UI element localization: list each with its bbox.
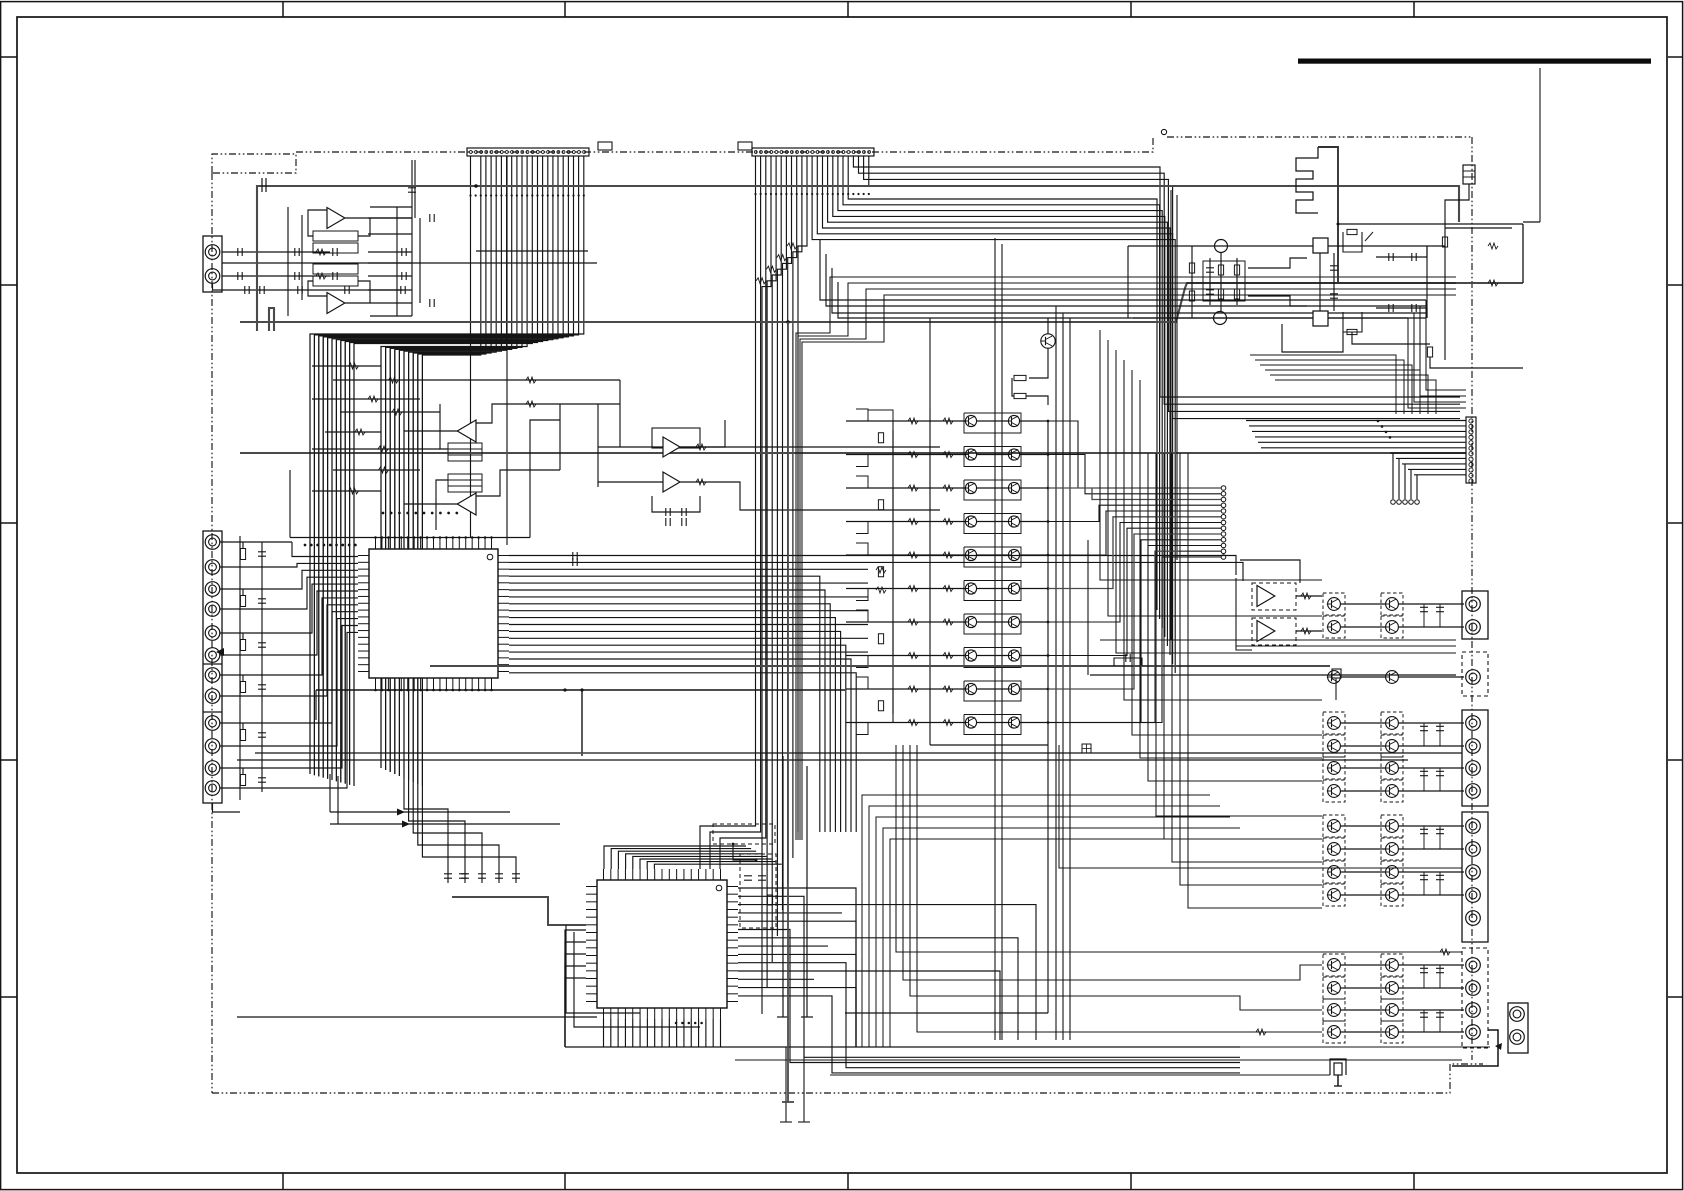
wire pair out [1398, 987, 1464, 989]
op-amp A3 [457, 420, 476, 442]
cluster dashed box L [1323, 999, 1345, 1021]
array bottom tie2 [845, 1012, 1048, 1014]
terminal circle [1221, 520, 1226, 525]
tie row mid-left [312, 448, 440, 450]
capacitor on in1 [238, 248, 242, 256]
junction dot CN2 [821, 193, 823, 195]
diode pair1b [1412, 253, 1416, 261]
wire row link [977, 621, 1009, 623]
junction dot CN2 [806, 193, 808, 195]
wire [261, 675, 263, 684]
wire [994, 238, 996, 1040]
wire U2 bottom pin [610, 1019, 612, 1047]
junction dot [1047, 587, 1050, 590]
junction dot [1047, 554, 1050, 557]
wire [869, 156, 1460, 419]
long wire under IC1 b [237, 759, 1408, 761]
component [1436, 1013, 1444, 1017]
junction dot row B [335, 544, 338, 547]
wire [354, 156, 532, 786]
wire Q0 down [1029, 348, 1048, 378]
wire U2 bottom pin [639, 1019, 641, 1047]
IC2 left vertical b [574, 932, 700, 1027]
junction dot [432, 689, 435, 692]
wire U1 bottom pin [413, 689, 415, 690]
resistor in1 [316, 249, 326, 255]
power right v2 [1444, 228, 1446, 360]
wire [772, 156, 781, 962]
junction dot [458, 689, 461, 692]
CN6 pin circle [1469, 473, 1473, 477]
junction dot [426, 536, 429, 539]
comb feed heavy [1318, 147, 1338, 283]
wire [1390, 452, 1466, 454]
G1 start component [262, 178, 266, 192]
transistor Q3B [1007, 482, 1020, 493]
below-bus vertical a [785, 1047, 787, 1122]
caps row above bus [459, 874, 467, 878]
wire U1 bottom pin [426, 689, 428, 690]
cluster dashed box L [1323, 954, 1345, 976]
wire [1124, 360, 1322, 700]
capacitor on in2 [333, 272, 337, 280]
wire A4 out [436, 480, 448, 530]
component [1436, 829, 1444, 833]
component [478, 874, 486, 878]
junction dot G1-CN1 [474, 184, 478, 188]
op-amp A8 dashed box [1252, 618, 1296, 645]
wire pair out [1398, 1009, 1464, 1011]
A1 feedback box [313, 231, 358, 241]
wire loop row 10 [964, 715, 1021, 735]
wire [412, 353, 414, 782]
wire [633, 856, 767, 869]
junction dot [471, 689, 474, 692]
wire [1164, 453, 1322, 839]
U2 bottom bus [565, 1046, 1240, 1048]
wire [1425, 299, 1427, 301]
pair T-bar a [777, 1016, 789, 1018]
component [1436, 726, 1444, 730]
component [1420, 726, 1428, 730]
wire [404, 156, 501, 778]
CN6 pin circle [1469, 419, 1473, 423]
wire [767, 156, 776, 988]
wire CN4 pin [220, 541, 292, 543]
wire U2 bottom pin [617, 1019, 619, 1047]
symbol mark [756, 278, 766, 284]
wire [509, 651, 868, 653]
junction dot [387, 536, 390, 539]
connector CN12 box [1508, 1003, 1528, 1053]
wire [853, 156, 1460, 397]
symbol mark [943, 720, 953, 726]
capacitor CN4 net [258, 552, 266, 556]
transistor cluster R [1385, 621, 1399, 634]
wire pair out [1398, 626, 1464, 628]
junction dot CN2 [775, 193, 777, 195]
wire [1265, 370, 1420, 414]
wire [327, 338, 329, 779]
wire [1420, 306, 1466, 396]
connector CN4 pin 11 [205, 761, 220, 776]
wire sq2 right [1328, 317, 1408, 319]
junction dot CN2 [760, 193, 762, 195]
boundary node circle [1161, 129, 1166, 134]
block rung e [368, 275, 412, 277]
wire CN4 pin [220, 632, 292, 634]
transistor Q4B [1007, 516, 1020, 527]
cluster dashed box R [1381, 977, 1403, 999]
testpoint box [1082, 744, 1091, 753]
wire [292, 584, 358, 633]
wire [408, 352, 410, 780]
CN6 pin circle [1469, 446, 1473, 450]
wire [738, 954, 856, 1047]
right vertical pair a [1170, 190, 1172, 640]
connector CN3 pin2 [205, 269, 220, 284]
transistor Q10B [1007, 717, 1020, 728]
wire U1 bottom pin [445, 689, 447, 690]
frame tick bottom [1130, 1173, 1132, 1189]
wire [509, 596, 868, 598]
cluster dashed box L [1323, 593, 1345, 615]
wire [838, 282, 1426, 318]
wire array row 4 input [846, 521, 966, 523]
component [1420, 1013, 1428, 1017]
wire [509, 665, 868, 667]
mosfet diag [1365, 232, 1373, 241]
wire [864, 156, 1460, 411]
tie row riser2 [337, 776, 339, 824]
wire [611, 849, 751, 869]
junction dot CN1 [552, 194, 554, 196]
junction dot row A [423, 512, 426, 515]
wire [509, 556, 1236, 576]
wire [509, 568, 868, 570]
power mid h1 [1248, 258, 1307, 268]
junction dot [732, 843, 735, 846]
wire [1439, 723, 1441, 746]
junction dot CN2 [827, 193, 829, 195]
cap A2 out [430, 299, 434, 307]
block rail x412 [411, 207, 413, 316]
junction dot [464, 536, 467, 539]
block rung b [368, 233, 412, 235]
wire row out [1020, 688, 1048, 690]
frame tick left [0, 996, 17, 998]
wire [1410, 469, 1412, 499]
mosfet blk1 [1343, 232, 1362, 252]
connector CN4 pin 5 [205, 626, 220, 641]
symbol mark [392, 409, 402, 415]
symbol mark [943, 485, 953, 491]
A2 feedback box2 [313, 276, 358, 286]
array right rail [1047, 421, 1049, 1013]
U1 top bus right riser [530, 420, 560, 538]
wire [738, 921, 856, 1047]
Q0 net box2 [1014, 393, 1026, 398]
wire [422, 786, 516, 883]
op-amp A6 [663, 472, 680, 492]
junction dot [1389, 436, 1392, 439]
resistor CN4 net [240, 549, 245, 560]
transistor cluster L [1327, 717, 1341, 730]
terminal circle [1221, 549, 1226, 554]
boundary top edge dash-dot [296, 137, 1153, 152]
block rung d [368, 262, 412, 264]
junction dot CN1 [516, 194, 518, 196]
U2 dashed box B [740, 854, 776, 928]
wire U2 bottom pin [676, 1019, 678, 1047]
transistor Q4A [964, 516, 977, 527]
wire [710, 156, 761, 869]
wire [640, 859, 772, 869]
CN12 pin2 [1510, 1030, 1525, 1045]
wire pair out [1398, 790, 1464, 792]
wire right loop [1445, 227, 1512, 229]
junction dot [406, 689, 409, 692]
junction dot [1377, 420, 1380, 423]
wire [1087, 540, 1089, 675]
junction dot CN1 [500, 194, 502, 196]
wire [1439, 826, 1441, 849]
transistor Q7A [964, 616, 977, 627]
component [1420, 771, 1428, 775]
wire [1439, 1010, 1441, 1032]
wire A1 out [345, 217, 412, 219]
wire [856, 476, 868, 488]
wire [1260, 365, 1412, 414]
wire U2 bottom pin [712, 1019, 714, 1047]
resistor stack A4 [448, 474, 482, 492]
CN10 pin1 [1466, 819, 1481, 834]
wire [336, 156, 553, 781]
wire loop row 1 [964, 413, 1021, 433]
power net box [1203, 261, 1245, 301]
wire [565, 942, 586, 1047]
wire [738, 978, 814, 980]
junction dot CN1 [511, 194, 513, 196]
tie row arrow2 [402, 821, 410, 828]
wire row link [977, 487, 1009, 489]
symbol mark [908, 452, 918, 458]
wire [800, 289, 1456, 840]
transistor cluster R [1385, 820, 1399, 833]
wire single out [1398, 676, 1464, 678]
junction dot [452, 689, 455, 692]
wire pair link [1340, 603, 1385, 605]
A6 fb caps2 [666, 518, 670, 526]
wire [738, 963, 1240, 1068]
wire [1140, 380, 1322, 758]
tie row mid-left [312, 490, 381, 492]
wire [1090, 674, 1456, 676]
CN6 pin circle [1469, 424, 1473, 428]
transistor cluster L [1327, 762, 1341, 775]
cluster dashed box R [1381, 838, 1403, 860]
power v 1334 [1333, 253, 1335, 311]
wire U1 bottom pin [452, 689, 454, 690]
long bottom row a [735, 1059, 1462, 1061]
wire [509, 624, 868, 626]
component [444, 874, 452, 878]
capacitor CN4 net [258, 643, 266, 647]
capacitor on shield row [401, 286, 405, 294]
component [1206, 268, 1214, 272]
capacitor on shield row [298, 286, 302, 294]
wire row link [977, 655, 1009, 657]
junction dot G2 [786, 320, 790, 324]
transistor cluster L [1327, 889, 1341, 902]
designator box near CN1 [598, 142, 612, 150]
wire [856, 589, 868, 601]
wire [796, 277, 1456, 840]
component body [878, 567, 883, 577]
wire [404, 778, 448, 883]
wire row link [977, 420, 1009, 422]
junction dot [700, 1022, 703, 1025]
transistor cluster R [1385, 762, 1399, 775]
frame tick bottom [564, 1173, 566, 1189]
junction dot CN2 [754, 193, 756, 195]
junction dot [490, 689, 493, 692]
block rail x397 [396, 207, 398, 316]
junction dot [445, 536, 448, 539]
tie row mid-left [325, 431, 381, 433]
junction dot [439, 689, 442, 692]
wire [626, 854, 762, 869]
terminal circle [1403, 500, 1408, 505]
junction dot CN2 [852, 193, 854, 195]
frame tick right [1668, 996, 1683, 998]
junction dot CN2 [811, 193, 813, 195]
junction dot row B [329, 544, 332, 547]
symbol mark [787, 243, 797, 249]
wire [738, 945, 828, 947]
cluster dashed box R [1381, 815, 1403, 837]
CN10 pin2 [1466, 842, 1481, 857]
cluster dashed box L [1323, 977, 1345, 999]
wire [1255, 360, 1404, 414]
cluster dashed box R [1381, 712, 1403, 734]
wire [509, 673, 856, 832]
thermistor comb [1296, 147, 1318, 213]
wire U2 bottom pin [705, 1019, 707, 1047]
junction dot [400, 689, 403, 692]
wire U1 bottom pin [420, 689, 422, 690]
long route bm3 [910, 745, 1322, 1010]
junction dot [471, 536, 474, 539]
transistor Q3A [964, 482, 977, 493]
transistor cluster R [1385, 740, 1399, 753]
wire [389, 348, 391, 772]
array left rail [929, 408, 931, 745]
junction dot [490, 536, 493, 539]
resistor CN4 net [240, 682, 245, 693]
symbol mark [766, 266, 776, 272]
symbol mark [943, 452, 953, 458]
wire [1048, 546, 1221, 723]
wire CN1 pin8 drop [506, 156, 508, 545]
cluster dashed box L [1323, 838, 1345, 860]
power net v2 [1209, 258, 1211, 305]
transistor Q8B [1007, 650, 1020, 661]
grey drop below U1 [581, 690, 583, 756]
wire A2 fb loop [308, 281, 327, 296]
junction dot [1047, 654, 1050, 657]
cluster dashed box R [1381, 616, 1403, 638]
wire [1108, 340, 1322, 616]
junction dot CN2 [857, 193, 859, 195]
junction dot CN1 [469, 194, 471, 196]
array bottom tie [930, 744, 1048, 746]
symbol mark [389, 377, 399, 383]
wire [1048, 540, 1221, 723]
wire [1258, 441, 1466, 443]
junction dot CN1 [521, 194, 523, 196]
wire pair out [1398, 767, 1464, 769]
junction dot CN1 [495, 194, 497, 196]
junction dot CN2 [842, 193, 844, 195]
mosfet blk2 in [1347, 329, 1357, 334]
junction dot [1047, 487, 1050, 490]
junction dot row A [439, 512, 442, 515]
transistor Q1A [964, 415, 977, 426]
wire [1069, 318, 1071, 1040]
CN10 pin3 [1466, 865, 1481, 880]
junction dot [1337, 223, 1340, 226]
boundary bottom edge dash-dot [212, 1064, 1483, 1093]
CN10 pin5 [1466, 911, 1481, 926]
wire [1188, 453, 1322, 908]
op-amp A5 box [652, 428, 700, 448]
wire [413, 782, 482, 883]
power net v1 [1191, 246, 1193, 318]
frame tick right [1668, 759, 1683, 761]
symbol mark [908, 653, 918, 659]
junction dot row B [354, 544, 357, 547]
wire [1423, 1010, 1425, 1032]
wire [399, 156, 506, 776]
bus row 646 [1236, 645, 1456, 647]
wire [1048, 534, 1221, 689]
junction dot [439, 536, 442, 539]
wire U2 bottom pin [683, 1019, 685, 1047]
junction dot CN2 [785, 193, 787, 195]
wire y380 run [440, 379, 620, 381]
wire U1 bottom pin [400, 689, 402, 690]
wire [413, 156, 491, 782]
junction dot [406, 536, 409, 539]
cluster dashed box R [1381, 735, 1403, 757]
wire CN1 tie row [476, 250, 588, 252]
resistor CN4 net [240, 775, 245, 786]
junction dot CN1 [562, 194, 564, 196]
wire A6 in [598, 481, 663, 483]
wire [509, 562, 1243, 581]
wire [261, 633, 263, 642]
power res right [1442, 237, 1447, 247]
wire [720, 156, 766, 869]
component [1436, 968, 1444, 972]
grey long vertical [787, 322, 789, 1102]
terminal circle [1221, 509, 1226, 514]
wire [738, 938, 1018, 1040]
CN6 pin circle [1469, 452, 1473, 456]
connector CN4 pin 2 [205, 560, 220, 575]
junction dot [1047, 621, 1050, 624]
